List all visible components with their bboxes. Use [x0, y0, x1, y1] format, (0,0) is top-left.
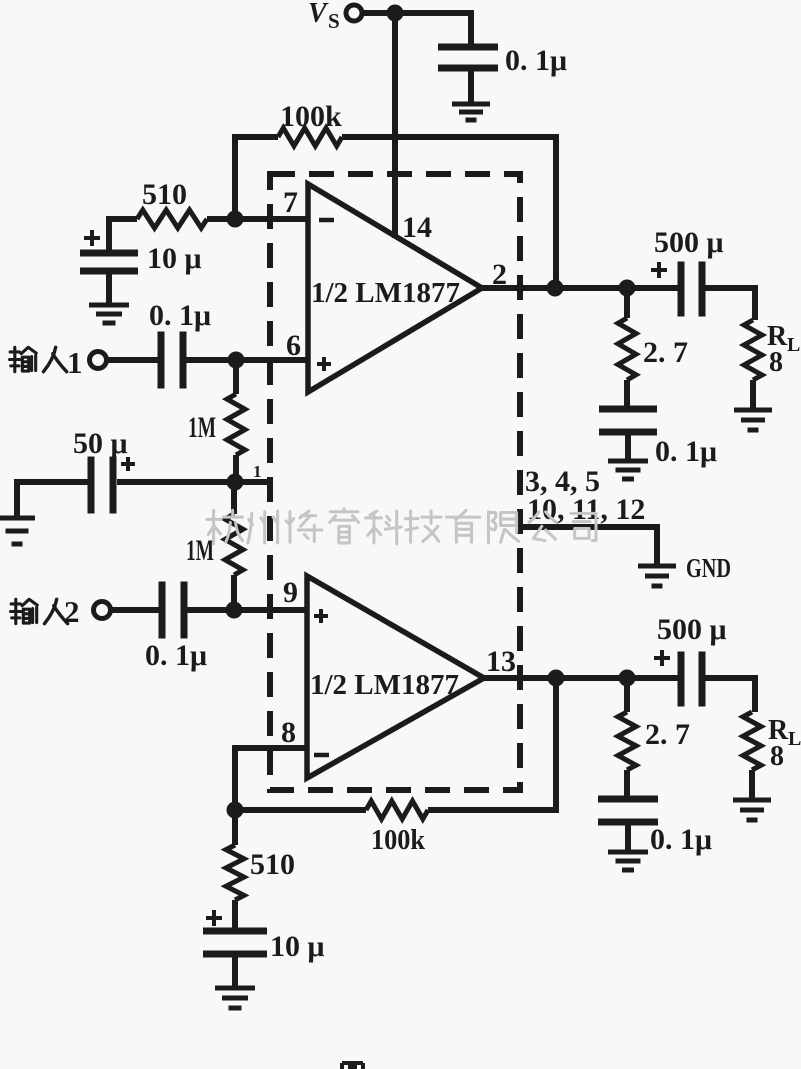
svg-text:0. 1μ: 0. 1μ	[650, 823, 712, 856]
op-amp U1a 1/2 LM1877	[308, 184, 482, 392]
pin 2 label	[492, 258, 507, 291]
node output2 b	[619, 670, 636, 687]
label GND	[686, 553, 731, 583]
terminal Vs	[308, 0, 362, 33]
wire C1 to ground	[468, 70, 474, 104]
svg-text:0. 1μ: 0. 1μ	[145, 639, 207, 672]
svg-text:6: 6	[286, 329, 301, 362]
ground GND	[638, 566, 676, 586]
svg-text:1: 1	[253, 462, 262, 481]
svg-text:10 μ: 10 μ	[147, 242, 202, 275]
svg-text:10 μ: 10 μ	[270, 930, 325, 963]
wire output1	[482, 285, 680, 291]
svg-text:8: 8	[770, 741, 784, 772]
wire 100k right	[342, 134, 556, 140]
wire C10 to ground	[232, 957, 238, 988]
node input2 junction	[226, 602, 243, 619]
wire C4 left	[17, 479, 88, 518]
svg-text:510: 510	[250, 848, 295, 881]
wire C5 to pin9	[187, 607, 308, 613]
svg-text:8: 8	[769, 347, 783, 378]
wire R2 left	[106, 216, 137, 222]
capacitor C8 500u	[654, 613, 727, 707]
svg-text:500 μ: 500 μ	[654, 226, 724, 259]
ground below C2	[89, 305, 129, 323]
wire C2 to ground	[106, 273, 112, 304]
capacitor C9 0.1u zobel2	[598, 796, 712, 857]
capacitor C7 0.1u zobel1	[599, 406, 717, 469]
pin 9 label	[283, 576, 298, 609]
pin 8 label	[281, 716, 296, 749]
node output1 a	[547, 280, 564, 297]
node input1 junction	[228, 352, 245, 369]
svg-text:V: V	[308, 0, 329, 29]
wire Vs to C1	[468, 10, 474, 46]
svg-text:8: 8	[281, 716, 296, 749]
node bias junction	[227, 474, 244, 491]
capacitor C2 10u	[80, 230, 202, 275]
resistor RL1 8ohm	[744, 320, 800, 410]
wire pin14 supply	[392, 13, 398, 238]
node Vs junction	[387, 5, 404, 22]
node pin8 junction	[227, 802, 244, 819]
svg-text:1M: 1M	[186, 534, 214, 567]
wire Vs top	[362, 10, 471, 16]
wire output2	[484, 675, 680, 681]
terminal input1	[90, 352, 107, 369]
svg-text:7: 7	[283, 186, 298, 219]
pin 14 label	[402, 211, 432, 244]
node output2 a	[548, 670, 565, 687]
ground below C7	[608, 461, 648, 479]
resistor RL2 8ohm	[743, 712, 801, 800]
svg-text:100k: 100k	[371, 825, 425, 856]
svg-text:1: 1	[67, 345, 83, 380]
svg-text:2. 7: 2. 7	[645, 718, 690, 751]
svg-text:500 μ: 500 μ	[657, 613, 727, 646]
svg-text:0. 1μ: 0. 1μ	[149, 299, 211, 332]
resistor R8 510	[226, 810, 295, 930]
ground below C10	[215, 988, 255, 1008]
watermark text	[207, 509, 596, 544]
svg-text:0. 1μ: 0. 1μ	[655, 435, 717, 468]
resistor R5 2.7	[618, 288, 688, 410]
svg-text:L: L	[787, 334, 800, 356]
svg-text:S: S	[328, 9, 340, 33]
svg-text:1M: 1M	[188, 411, 216, 444]
capacitor C10 10u	[203, 910, 325, 963]
svg-text:50 μ: 50 μ	[73, 427, 128, 460]
ground below C1	[452, 104, 490, 120]
wire feedback down to output	[553, 134, 559, 288]
label input2	[11, 594, 80, 629]
wire C7 to ground	[625, 434, 631, 461]
pin 6 label	[286, 329, 301, 362]
resistor R2 510	[137, 178, 207, 228]
resistor R1 100k	[278, 100, 342, 146]
label pins 3,4,5	[525, 465, 600, 498]
resistor R4 1M	[186, 482, 243, 612]
svg-text:2. 7: 2. 7	[643, 336, 688, 369]
wire pin8	[235, 745, 308, 813]
ground below RL1	[734, 410, 772, 430]
wire 100k left vertical	[232, 137, 238, 222]
wire C8 to RL2	[705, 675, 755, 712]
label pins 10,11,12	[527, 493, 645, 526]
capacitor C3 0.1u input1	[149, 299, 211, 389]
capacitor C6 500u	[651, 226, 724, 317]
wire bias to box	[235, 479, 268, 485]
capacitor C4 50u	[73, 427, 235, 514]
svg-text:2: 2	[64, 594, 80, 629]
svg-text:L: L	[788, 728, 801, 750]
wire R2 to pin7	[207, 216, 308, 222]
svg-text:GND: GND	[686, 553, 731, 583]
ground left of C4	[0, 518, 35, 544]
ground below C9	[608, 852, 648, 870]
capacitor C1 0.1u decoupling	[438, 44, 567, 78]
svg-text:14: 14	[402, 211, 432, 244]
wire input1	[107, 357, 158, 363]
resistor R6 2.7	[618, 678, 690, 800]
svg-text:9: 9	[283, 576, 298, 609]
wire 100k2 right	[428, 678, 556, 813]
partial caption glyph	[342, 1063, 363, 1069]
resistor R7 100k	[366, 801, 428, 856]
wire 100k2 left	[235, 807, 366, 813]
op-amp U1b 1/2 LM1877	[307, 576, 484, 778]
pin 13 label	[486, 645, 516, 678]
pin 7 label	[283, 186, 298, 219]
svg-text:0. 1μ: 0. 1μ	[505, 44, 567, 77]
ground below RL2	[733, 800, 771, 820]
wire input2	[110, 607, 159, 613]
terminal input2	[94, 602, 111, 619]
svg-text:1/2 LM1877: 1/2 LM1877	[310, 669, 459, 701]
wire gnd net	[521, 524, 657, 566]
IC boundary dashed box	[270, 174, 520, 790]
svg-text:13: 13	[486, 645, 516, 678]
label input1	[10, 345, 83, 380]
svg-text:1/2 LM1877: 1/2 LM1877	[311, 277, 460, 309]
wire 100k left	[232, 134, 278, 140]
node R2/pin7 junction	[227, 211, 244, 228]
wire R2 left corner	[106, 216, 112, 252]
capacitor C5 0.1u input2	[145, 582, 207, 673]
wire C3 to pin6	[186, 357, 308, 363]
wire C6 to RL1	[705, 285, 755, 320]
node output1 b	[619, 280, 636, 297]
svg-text:100k: 100k	[280, 100, 342, 133]
wire C9 to ground	[625, 824, 631, 852]
tick mark 1	[253, 462, 262, 481]
svg-text:510: 510	[142, 178, 187, 211]
resistor R3 1M	[188, 360, 245, 484]
